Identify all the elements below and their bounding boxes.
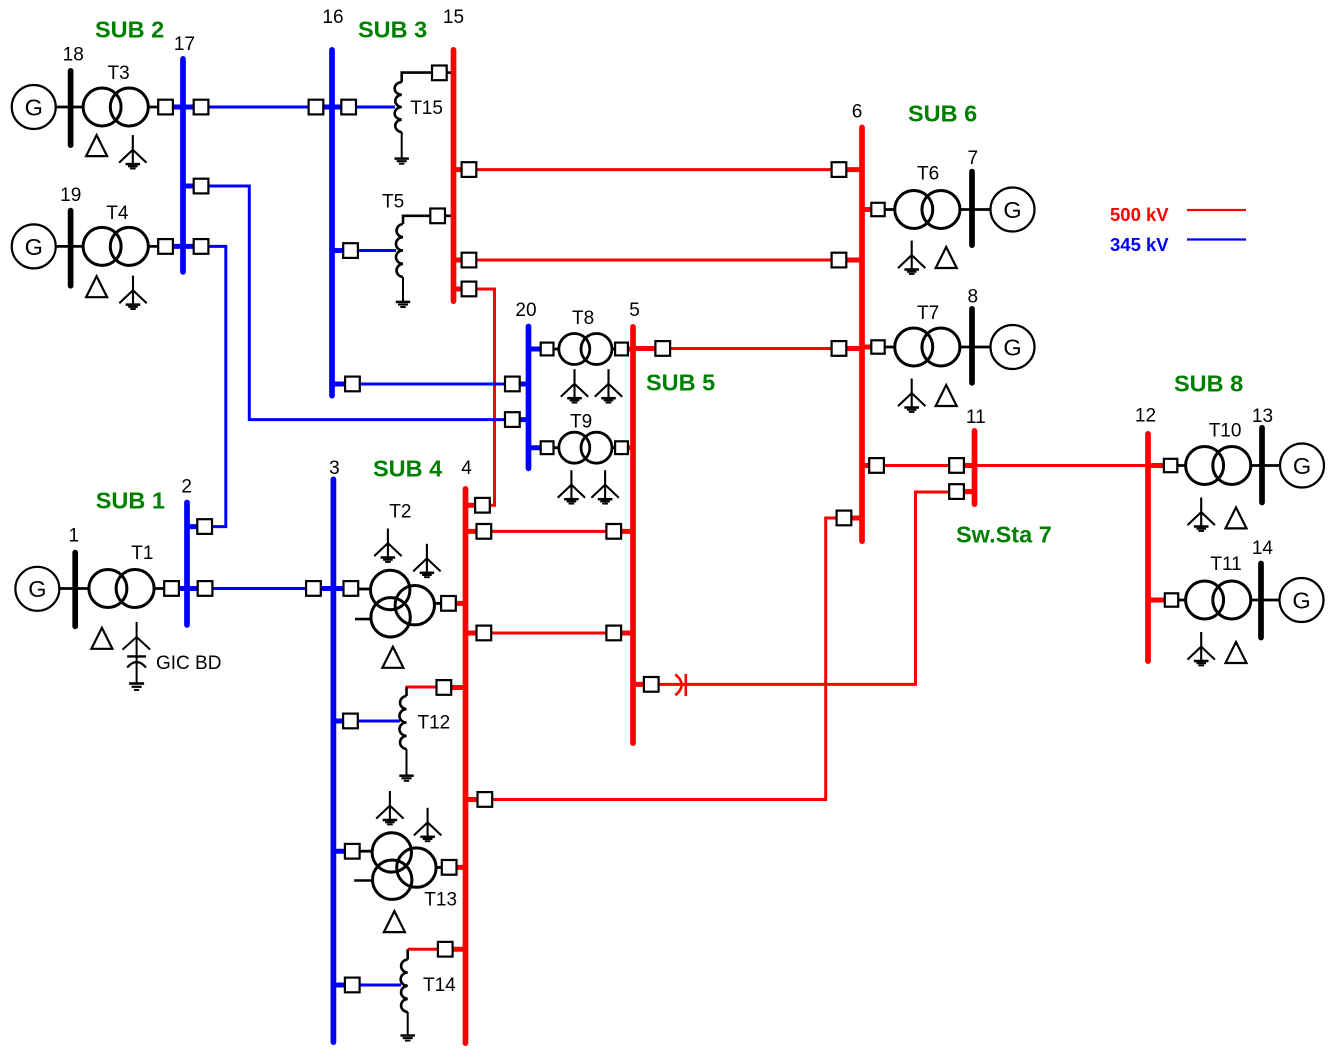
svg-text:SUB 6: SUB 6	[908, 101, 977, 127]
svg-text:3: 3	[329, 458, 340, 479]
svg-text:T13: T13	[424, 890, 457, 911]
svg-text:500 kV: 500 kV	[1110, 204, 1169, 225]
svg-text:15: 15	[443, 7, 464, 28]
svg-text:G: G	[1003, 197, 1021, 223]
svg-text:SUB 5: SUB 5	[646, 370, 715, 396]
svg-text:7: 7	[968, 148, 979, 169]
svg-text:G: G	[1293, 453, 1311, 479]
svg-text:18: 18	[63, 45, 84, 66]
svg-text:T8: T8	[572, 308, 594, 329]
svg-text:SUB 1: SUB 1	[96, 488, 165, 514]
svg-text:13: 13	[1252, 406, 1273, 427]
svg-text:2: 2	[181, 476, 192, 497]
svg-text:1: 1	[69, 526, 80, 547]
svg-text:6: 6	[852, 102, 863, 123]
svg-text:G: G	[25, 94, 43, 120]
svg-text:16: 16	[322, 7, 343, 28]
svg-text:SUB 3: SUB 3	[358, 17, 427, 43]
svg-text:G: G	[28, 576, 46, 602]
svg-text:T12: T12	[418, 713, 451, 734]
svg-text:4: 4	[461, 458, 472, 479]
svg-text:T3: T3	[108, 63, 130, 84]
svg-text:T2: T2	[389, 502, 411, 523]
svg-text:T5: T5	[382, 192, 404, 213]
svg-text:SUB 8: SUB 8	[1174, 371, 1243, 397]
svg-text:T15: T15	[410, 98, 443, 119]
svg-text:5: 5	[629, 300, 640, 321]
svg-text:T1: T1	[131, 543, 153, 564]
svg-text:GIC BD: GIC BD	[156, 653, 221, 674]
svg-text:12: 12	[1135, 406, 1156, 427]
svg-text:T14: T14	[423, 975, 456, 996]
svg-text:8: 8	[968, 287, 979, 308]
svg-text:SUB 2: SUB 2	[95, 17, 164, 43]
svg-text:17: 17	[174, 34, 195, 55]
svg-text:SUB 4: SUB 4	[373, 456, 442, 482]
svg-text:Sw.Sta 7: Sw.Sta 7	[956, 522, 1052, 548]
svg-text:20: 20	[515, 300, 536, 321]
svg-text:11: 11	[966, 407, 986, 428]
svg-text:G: G	[25, 234, 43, 260]
svg-text:G: G	[1003, 334, 1021, 360]
svg-text:T7: T7	[917, 303, 939, 324]
svg-text:G: G	[1292, 587, 1310, 613]
svg-text:T11: T11	[1210, 554, 1241, 575]
svg-text:345 kV: 345 kV	[1110, 234, 1169, 255]
svg-text:19: 19	[60, 185, 81, 206]
svg-text:14: 14	[1252, 538, 1274, 559]
svg-text:T10: T10	[1209, 421, 1242, 442]
svg-text:T6: T6	[917, 164, 939, 185]
svg-text:T9: T9	[570, 412, 592, 433]
svg-text:T4: T4	[106, 203, 129, 224]
